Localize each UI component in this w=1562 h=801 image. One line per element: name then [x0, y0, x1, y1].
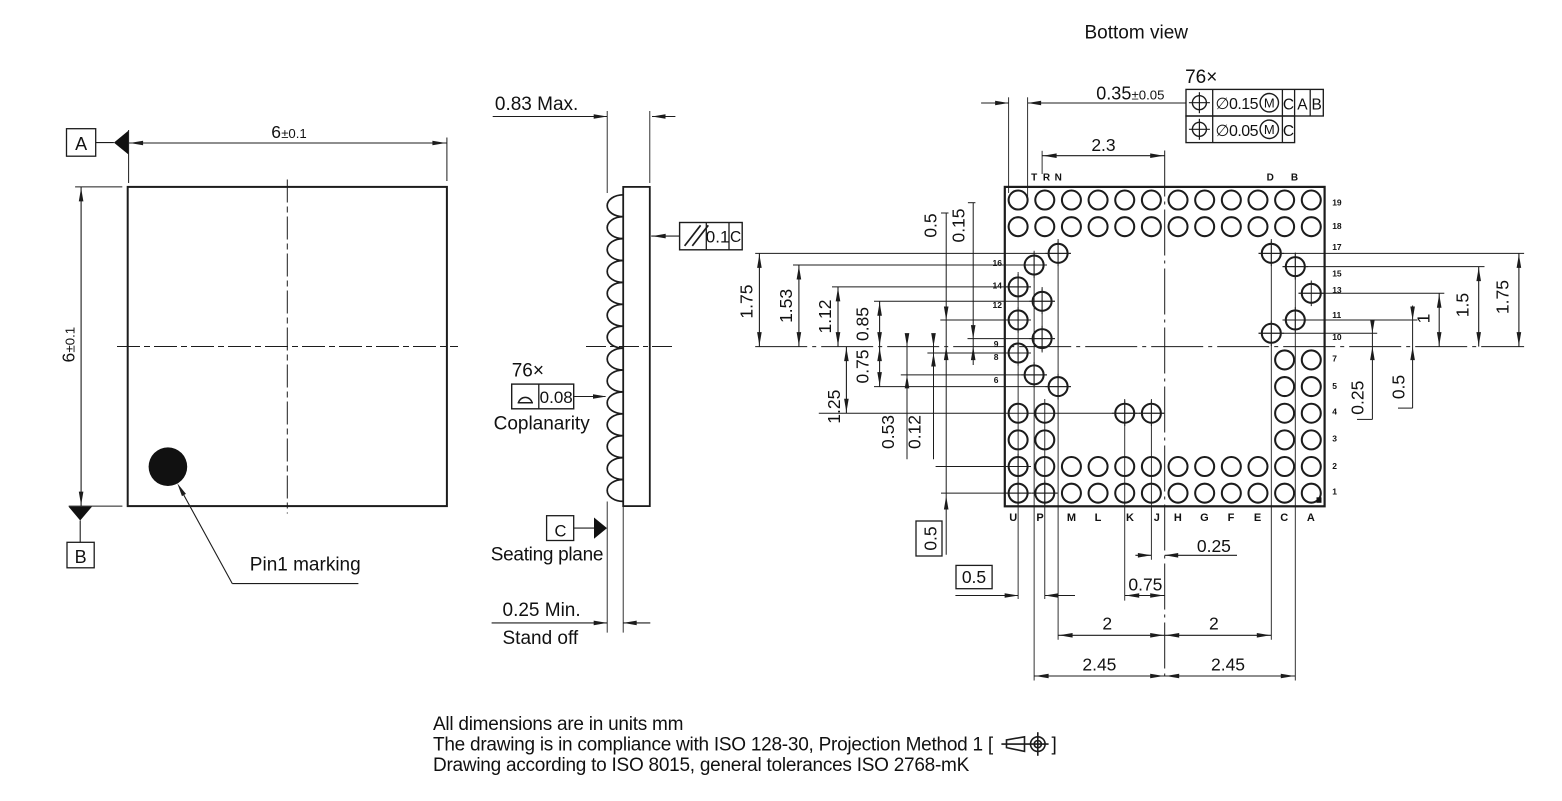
svg-text:6: 6	[59, 353, 79, 363]
svg-text:3: 3	[1332, 434, 1337, 444]
svg-text:15: 15	[1332, 269, 1342, 279]
svg-text:0.25: 0.25	[1197, 536, 1231, 556]
svg-text:C: C	[1283, 123, 1294, 140]
svg-text:C: C	[730, 229, 741, 246]
svg-text:1: 1	[1414, 314, 1434, 324]
svg-text:1.5: 1.5	[1452, 293, 1472, 317]
svg-text:Stand off: Stand off	[503, 628, 579, 649]
svg-text:F: F	[1228, 512, 1235, 524]
svg-text:]: ]	[1052, 735, 1057, 756]
svg-text:C: C	[554, 523, 566, 541]
svg-text:2.45: 2.45	[1211, 654, 1245, 674]
svg-text:76×: 76×	[1185, 67, 1217, 88]
svg-text:G: G	[1200, 512, 1209, 524]
svg-text:±0.1: ±0.1	[281, 126, 307, 141]
svg-text:0.12: 0.12	[905, 415, 925, 449]
svg-text:16: 16	[993, 258, 1003, 268]
svg-text:10: 10	[1332, 332, 1342, 342]
svg-text:1: 1	[1332, 487, 1337, 497]
svg-text:19: 19	[1332, 197, 1342, 207]
svg-text:2.3: 2.3	[1091, 135, 1115, 155]
svg-text:2: 2	[1102, 613, 1112, 633]
svg-text:B: B	[75, 547, 87, 567]
svg-text:6: 6	[271, 122, 281, 142]
svg-text:D: D	[1267, 172, 1274, 183]
svg-text:M: M	[1067, 512, 1076, 524]
svg-text:0.75: 0.75	[1128, 574, 1162, 594]
svg-text:17: 17	[1332, 242, 1342, 252]
svg-text:H: H	[1174, 512, 1182, 524]
svg-text:L: L	[1095, 512, 1102, 524]
svg-text:C: C	[1280, 512, 1288, 524]
svg-text:7: 7	[1332, 354, 1337, 364]
svg-text:A: A	[1307, 512, 1315, 524]
svg-text:8: 8	[994, 352, 999, 362]
svg-text:14: 14	[993, 281, 1003, 291]
svg-text:76×: 76×	[512, 360, 544, 381]
svg-text:5: 5	[1332, 381, 1337, 391]
svg-text:M: M	[1264, 122, 1275, 137]
svg-text:12: 12	[993, 300, 1003, 310]
svg-text:U: U	[1009, 512, 1017, 524]
svg-text:A: A	[1297, 96, 1308, 113]
svg-text:1.75: 1.75	[1493, 280, 1513, 314]
svg-text:Seating plane: Seating plane	[491, 545, 603, 566]
svg-text:0.35: 0.35	[1096, 84, 1131, 104]
svg-text:0.5: 0.5	[921, 526, 941, 550]
svg-text:6: 6	[994, 375, 999, 385]
svg-text:Drawing according to ISO 8015,: Drawing according to ISO 8015, general t…	[433, 755, 970, 776]
svg-text:±0.05: ±0.05	[1132, 88, 1165, 103]
svg-text:0.5: 0.5	[962, 567, 986, 587]
svg-text:0.1: 0.1	[706, 227, 730, 246]
svg-text:E: E	[1254, 512, 1261, 524]
svg-text:Coplanarity: Coplanarity	[494, 414, 591, 435]
svg-text:0.5: 0.5	[921, 213, 941, 237]
svg-text:0.75: 0.75	[853, 349, 873, 383]
svg-text:All dimensions are in units mm: All dimensions are in units mm	[433, 714, 683, 735]
svg-text:K: K	[1126, 512, 1134, 524]
svg-text:±0.1: ±0.1	[63, 327, 78, 353]
svg-text:M: M	[1264, 96, 1275, 111]
svg-text:C: C	[1283, 96, 1294, 113]
svg-text:0.08: 0.08	[540, 388, 573, 407]
svg-text:R: R	[1043, 172, 1051, 183]
svg-text:∅0.05: ∅0.05	[1216, 123, 1259, 140]
svg-text:B: B	[1312, 96, 1322, 113]
svg-text:2: 2	[1332, 461, 1337, 471]
svg-text:∅0.15: ∅0.15	[1216, 96, 1259, 113]
svg-text:11: 11	[1332, 310, 1341, 320]
svg-text:0.25 Min.: 0.25 Min.	[503, 600, 581, 621]
svg-text:18: 18	[1332, 221, 1342, 231]
svg-text:0.25: 0.25	[1347, 381, 1367, 415]
svg-text:A: A	[75, 134, 87, 154]
svg-text:1.12: 1.12	[815, 299, 835, 333]
svg-text:0.15: 0.15	[948, 208, 968, 242]
svg-text:N: N	[1055, 172, 1062, 183]
svg-text:1.25: 1.25	[824, 390, 844, 424]
svg-text:0.85: 0.85	[853, 307, 873, 341]
svg-text:0.5: 0.5	[1389, 375, 1409, 399]
svg-text:1.53: 1.53	[776, 289, 796, 323]
svg-text:Bottom view: Bottom view	[1085, 23, 1189, 44]
svg-text:0.53: 0.53	[878, 415, 898, 449]
svg-text:4: 4	[1332, 407, 1337, 417]
svg-text:13: 13	[1332, 285, 1342, 295]
svg-text:9: 9	[994, 339, 999, 349]
svg-text:T: T	[1031, 172, 1037, 183]
svg-text:P: P	[1036, 512, 1043, 524]
svg-text:J: J	[1154, 512, 1160, 524]
svg-text:2: 2	[1209, 613, 1219, 633]
svg-text:0.83 Max.: 0.83 Max.	[495, 94, 578, 115]
svg-text:1.75: 1.75	[736, 285, 756, 319]
svg-text:Pin1 marking: Pin1 marking	[250, 555, 361, 576]
svg-text:B: B	[1291, 172, 1298, 183]
svg-text:The drawing is in compliance w: The drawing is in compliance with ISO 12…	[433, 735, 994, 756]
svg-text:2.45: 2.45	[1082, 654, 1116, 674]
